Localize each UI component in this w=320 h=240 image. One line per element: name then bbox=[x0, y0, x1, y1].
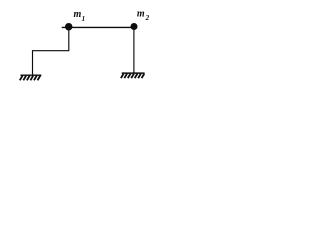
ground: left fixed support with hatching bbox=[20, 75, 42, 80]
wire: right column (from m2 straight down to right support) bbox=[133, 27, 135, 73]
label m1 bbox=[74, 9, 86, 23]
label m2 bbox=[137, 9, 150, 23]
svg-text:1: 1 bbox=[82, 15, 86, 23]
wire: top beam from left stub through m1 to m2 bbox=[62, 26, 134, 28]
wire: left column (from m1 down, step left, down to left support) bbox=[33, 27, 69, 75]
svg-text:m: m bbox=[137, 9, 145, 20]
mass m2 (filled node circle) bbox=[131, 23, 138, 30]
svg-text:2: 2 bbox=[145, 14, 150, 22]
ground: right fixed support with hatching bbox=[121, 73, 145, 78]
svg-text:m: m bbox=[74, 9, 82, 20]
mass m1 (filled node circle) bbox=[65, 23, 73, 31]
